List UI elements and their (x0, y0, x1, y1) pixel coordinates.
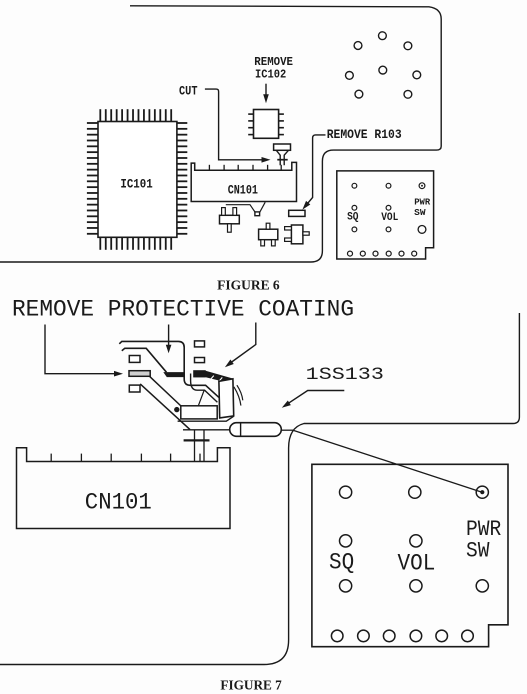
svg-text:FIGURE 6: FIGURE 6 (217, 277, 280, 292)
ribbon bottom edge (178, 416, 234, 421)
wire: solder point below CN101 (226, 205, 255, 212)
solder dot on ribbon (174, 407, 179, 412)
svg-text:PWR: PWR (414, 197, 431, 207)
resistor R103 body above CN101 (274, 144, 291, 150)
panel holes row 1 (352, 183, 357, 188)
control panel (figure 6) outline (337, 171, 434, 259)
diode left lead (183, 429, 230, 431)
diode cathode band (240, 423, 242, 436)
speaker hole pattern (8 holes) (379, 32, 387, 40)
wire B (lower jumper wire) (122, 348, 167, 372)
svg-text:VOL: VOL (381, 212, 398, 224)
IC101 pins left (87, 122, 98, 124)
diode right lead (281, 429, 293, 431)
IC101 pins top (99, 109, 101, 121)
solder pad left column bottom (129, 385, 140, 392)
spring-back whisker marks (234, 387, 241, 406)
IC102 pins left (248, 113, 253, 115)
svg-text:SQ: SQ (347, 212, 359, 224)
svg-text:SW: SW (466, 539, 490, 564)
wire A (upper jumper wire) (119, 341, 219, 397)
svg-text:REMOVE PROTECTIVE COATING: REMOVE PROTECTIVE COATING (12, 297, 354, 323)
protective coating left black bar (163, 372, 184, 377)
solder crossbar (184, 439, 210, 441)
solder pad left column top (129, 356, 140, 363)
wire: figure 6 PCB board outline (0, 6, 441, 262)
cut leader line with arrow (205, 89, 263, 160)
transistor Q1 below CN101 (220, 215, 240, 224)
svg-text:REMOVE: REMOVE (254, 55, 293, 69)
svg-text:IC101: IC101 (120, 178, 152, 192)
svg-text:FIGURE 7: FIGURE 7 (220, 677, 282, 692)
resistor R103 bent leads (276, 150, 280, 165)
wire pair from ribbon to CN101 (194, 430, 196, 461)
peeled ribbon end (tilted rectangle) (219, 379, 234, 418)
svg-text:1SS133: 1SS133 (306, 366, 384, 385)
svg-text:IC102: IC102 (255, 68, 286, 82)
svg-text:CN101: CN101 (85, 490, 152, 517)
solder pad middle column third (coated, black) (194, 371, 205, 377)
transistor Q2 below CN101 (259, 229, 278, 240)
panel bottom hole row (348, 251, 353, 256)
panel holes row 1 (figure 7) (340, 486, 352, 498)
svg-text:CN101: CN101 (228, 184, 258, 198)
IC102 pins right (279, 113, 284, 115)
svg-text:SW: SW (414, 208, 426, 218)
transistor Q3 (rotated) below CN101 (291, 225, 303, 244)
leader arrow 3 (right) (231, 323, 256, 363)
solder pad left column middle (long) (129, 371, 150, 377)
panel bottom hole row (figure 7) (331, 630, 343, 642)
svg-text:VOL: VOL (398, 551, 436, 577)
leader arrow to diode (286, 391, 345, 406)
wire: pointer from diode to PWR SW hole (293, 430, 480, 491)
leader arrow 1 (left) (45, 325, 116, 374)
control panel (figure 7) outline (312, 464, 508, 646)
wire: board trace from diode junction, long route (0, 313, 519, 665)
large hole (418, 226, 426, 234)
R103 solder pad (289, 210, 305, 216)
CN101 pin ticks (figure 7) (50, 454, 52, 462)
connector CN101 (figure 6) outline (191, 162, 296, 201)
svg-text:CUT: CUT (179, 84, 198, 99)
ribbon edge diagonal P (150, 377, 181, 406)
PWR SW hole with dot (figure 7) (476, 486, 488, 498)
ribbon end tab rectangle (181, 406, 217, 419)
diode 1SS133 body (230, 423, 282, 437)
panel holes row 2 (352, 205, 357, 210)
R103 lead crossbar (277, 159, 287, 161)
solder pad middle column second (195, 358, 205, 363)
panel holes row 2 (figure 7) (340, 535, 352, 547)
svg-text:REMOVE R103: REMOVE R103 (327, 128, 402, 142)
PWR SW hole with dot (419, 183, 425, 189)
ribbon face edge (198, 390, 204, 406)
svg-text:SQ: SQ (329, 549, 354, 575)
IC102 body (254, 110, 279, 139)
IC101 pins right (177, 122, 187, 124)
leader arrow 2 (middle) (168, 325, 170, 347)
wire A inner edge (191, 374, 218, 403)
CN101 pin ticks (208, 165, 210, 170)
panel holes row 3 (figure 7) (340, 580, 352, 592)
IC101 pins bottom (99, 237, 101, 250)
IC101 body (98, 122, 177, 238)
ribbon edge diagonal Q (140, 384, 190, 430)
arrow to IC102 (265, 84, 267, 100)
protective coating right black band (194, 371, 233, 383)
leader line to R103 pad with arrow (305, 135, 326, 207)
panel holes row 3 (352, 227, 357, 232)
connector CN101 (figure 7) outline (17, 448, 231, 529)
solder pad middle column top (195, 341, 205, 347)
